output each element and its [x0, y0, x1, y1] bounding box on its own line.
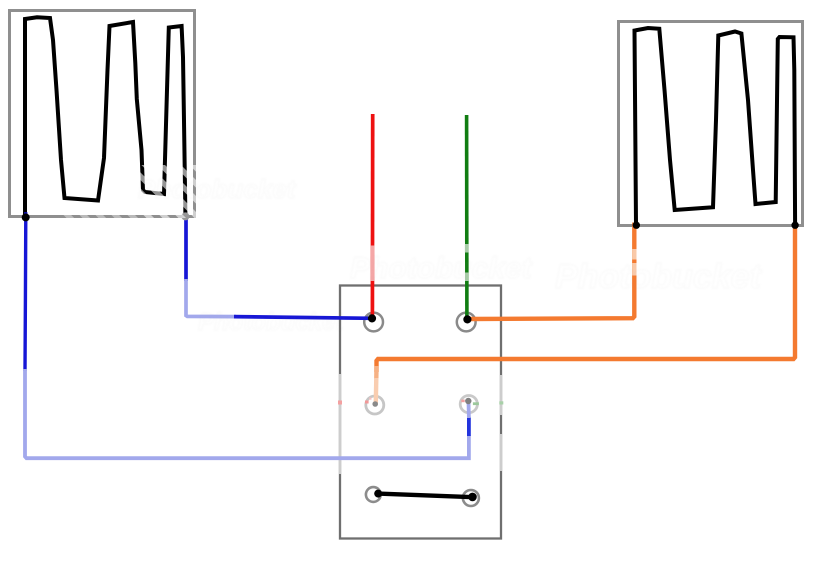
heating element E1 coil [25, 17, 185, 215]
terminal T1 ring [364, 313, 383, 332]
terminal T5 ring [366, 487, 381, 502]
node E1-B [181, 212, 189, 220]
switch S1 body washed left edge [339, 374, 341, 474]
wire orange E2-B to T3 [377, 224, 796, 372]
heating element E2 coil [635, 28, 796, 224]
terminal T4 ring [460, 396, 477, 413]
svg-text:Photobucket: Photobucket [138, 174, 297, 204]
wire orange T2 to E2-A [469, 223, 634, 320]
watermark wash over E1 bottom border [58, 209, 140, 218]
artifact marks near T3 [338, 398, 372, 405]
svg-text:Photobucket: Photobucket [198, 309, 344, 336]
node T4 [465, 398, 471, 404]
node T2 [463, 315, 471, 323]
watermark ghost text [138, 174, 763, 336]
svg-text:Photobucket: Photobucket [350, 252, 534, 285]
watermark wash over E1 corner [139, 165, 197, 218]
node T3 [372, 401, 378, 407]
wire red supply to T1 [371, 114, 375, 319]
heating element E2 box [619, 22, 803, 226]
heating element E1 box [10, 11, 195, 217]
svg-text:Photobucket: Photobucket [555, 258, 763, 296]
wire black jumper T5 to T6 [378, 494, 473, 498]
wire blue E1-A to T4 [23, 212, 27, 371]
switch S1 body washed right edge [500, 375, 502, 415]
node T6 [468, 493, 477, 502]
wire green supply to T2 [465, 115, 469, 319]
node T1 [368, 314, 376, 322]
wire blue E1-B to T1 [184, 217, 188, 281]
terminal T2 ring [457, 313, 476, 332]
switch S1 body [340, 286, 501, 539]
terminal T3 ring [366, 396, 384, 414]
artifact marks near T4 [461, 400, 503, 405]
terminal T6 ring [463, 490, 479, 506]
node E2-A [633, 222, 640, 229]
node E1-A [22, 213, 30, 221]
node E2-B [791, 222, 798, 229]
node T5 [374, 490, 382, 498]
